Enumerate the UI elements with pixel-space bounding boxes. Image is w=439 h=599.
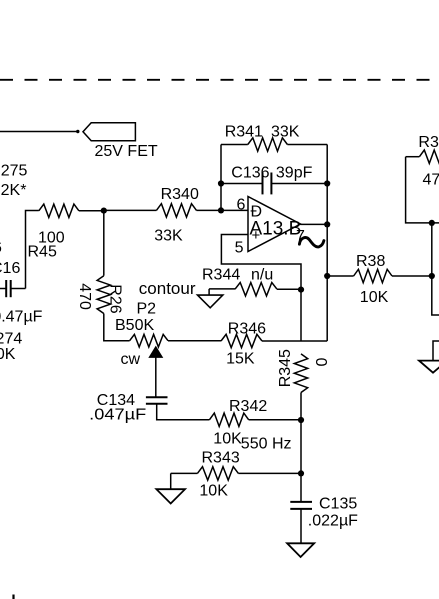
- wire: P2 to R346: [168, 340, 221, 342]
- node B: R344/feedback junction: [298, 287, 304, 293]
- svg-text:10K: 10K: [360, 289, 389, 306]
- svg-text:R340: R340: [161, 186, 199, 203]
- pin 7 output wire: [301, 223, 328, 225]
- svg-text:R347: R347: [418, 134, 439, 151]
- svg-text:6: 6: [237, 196, 246, 213]
- node E: R343/C135 junction: [298, 470, 304, 476]
- wire: C135 to ground: [300, 509, 302, 543]
- svg-text:C135: C135: [319, 495, 357, 512]
- wire: R342 to node D: [249, 419, 301, 421]
- wire: R38 left lead: [327, 275, 353, 277]
- node: right vertical top junction: [429, 220, 435, 226]
- svg-text:C16: C16: [0, 260, 20, 277]
- wire: input to 25V FET tag: [0, 131, 78, 133]
- capacitor C16: [0, 288, 6, 290]
- svg-text:5: 5: [235, 240, 244, 257]
- wire: wiper down to C134: [155, 356, 157, 397]
- capacitor C134: [146, 396, 168, 398]
- partial mark bottom left: [12, 595, 14, 599]
- svg-text:R275: R275: [0, 162, 28, 179]
- resistor R344: [235, 283, 277, 296]
- svg-text:470: 470: [76, 283, 93, 310]
- resistor R342: [209, 413, 248, 426]
- node: wire end dot: [76, 130, 79, 133]
- svg-text:0: 0: [314, 358, 331, 367]
- wire: C134 to R342: [157, 404, 210, 420]
- svg-text:C136: C136: [231, 165, 269, 182]
- wire: node D to node E: [300, 420, 302, 473]
- svg-text:n/u: n/u: [251, 267, 273, 284]
- node: R38 tap junction: [324, 273, 330, 279]
- svg-text:R342: R342: [229, 398, 267, 415]
- svg-text:470K: 470K: [423, 171, 439, 188]
- svg-text:.047µF: .047µF: [89, 406, 146, 423]
- resistor R347 (clipped): [406, 156, 420, 158]
- svg-text:R344: R344: [202, 267, 240, 284]
- svg-text:6: 6: [0, 240, 2, 257]
- ground for R343: [170, 473, 172, 489]
- wire: node A down to R26: [103, 211, 105, 276]
- resistor R343: [197, 467, 238, 480]
- node D: R342/R345 junction: [298, 417, 304, 423]
- node: output junction: [324, 221, 330, 227]
- ground for C135: [287, 543, 314, 557]
- svg-text:33K: 33K: [154, 227, 183, 244]
- svg-text:25V FET: 25V FET: [95, 143, 158, 160]
- svg-text:10K: 10K: [213, 430, 242, 447]
- svg-text:Đ: Đ: [251, 203, 263, 220]
- wire: R345 bottom to node D: [300, 393, 302, 421]
- wire: R346 to output vertical: [262, 340, 327, 342]
- wire: R343 to node E: [238, 472, 301, 474]
- svg-text:550 Hz: 550 Hz: [241, 435, 292, 452]
- capacitor C136: [221, 183, 263, 185]
- wire: R26 to P2: [104, 314, 130, 341]
- resistor R346: [221, 334, 262, 347]
- svg-text:0.47µF: 0.47µF: [0, 309, 43, 326]
- wire: arrow to R344: [209, 288, 235, 290]
- svg-text:10K: 10K: [199, 482, 228, 499]
- svg-text:R341: R341: [225, 123, 263, 140]
- wire: C16 up to R45: [26, 211, 39, 289]
- svg-text:R45: R45: [28, 244, 57, 261]
- wire: left feedback vertical: [220, 145, 222, 211]
- capacitor C135: [290, 501, 312, 503]
- dashed separator line: [0, 79, 439, 81]
- wire: node E to C135: [300, 473, 302, 502]
- wire: R344 to node B: [277, 288, 301, 290]
- svg-text:33K: 33K: [271, 123, 300, 140]
- sine squiggle annotation: [299, 238, 324, 247]
- wire: output vertical: [326, 145, 328, 342]
- wire: R45 to node A: [79, 210, 104, 212]
- P2 wiper arrow: [149, 347, 162, 358]
- node: R38 right junction: [429, 273, 435, 279]
- resistor R340: [156, 204, 196, 217]
- svg-text:P2: P2: [137, 301, 157, 318]
- svg-text:R346: R346: [228, 321, 266, 338]
- contour source arrow: [208, 289, 210, 295]
- power tag 25V FET pentagon: [83, 123, 135, 141]
- pin 6 wire: [221, 209, 248, 211]
- svg-text:cw: cw: [121, 351, 141, 368]
- svg-text:R38: R38: [356, 253, 385, 270]
- wire: R340 to pin6 node: [197, 209, 222, 211]
- resistor R341: [248, 138, 288, 151]
- ground right: [419, 361, 439, 373]
- svg-text:10K: 10K: [0, 346, 16, 363]
- svg-text:B50K: B50K: [115, 317, 154, 334]
- wire: right ground lead: [433, 341, 439, 361]
- node: C136 left junction: [218, 180, 224, 186]
- pin 5 wire and feedback to node C: [221, 235, 301, 342]
- potentiometer P2 body: [130, 334, 168, 347]
- resistor R26: [97, 276, 110, 314]
- svg-text:R26: R26: [107, 284, 124, 313]
- node A: R45/R340/R26 junction: [101, 208, 107, 214]
- svg-text:15K: 15K: [226, 351, 255, 368]
- resistor R45: [39, 204, 79, 217]
- wire: right vertical: [432, 223, 439, 315]
- op-amp A13.B triangle: [248, 197, 301, 252]
- node: C136 right junction: [324, 180, 330, 186]
- node: pin6 junction: [218, 207, 224, 213]
- wire: gnd to R343: [171, 472, 198, 474]
- svg-text:R345: R345: [277, 349, 294, 387]
- svg-text:39pF: 39pF: [276, 165, 313, 182]
- wire: R347 loop: [406, 157, 439, 223]
- wire: node A to R340: [104, 209, 157, 211]
- svg-text:.022µF: .022µF: [308, 513, 358, 530]
- svg-text:+: +: [252, 227, 261, 244]
- resistor R38: [354, 269, 392, 282]
- wire: R341 left lead: [221, 144, 248, 146]
- svg-text:contour: contour: [139, 279, 196, 298]
- wire: R341 right lead: [287, 144, 327, 146]
- resistor R345: [294, 354, 307, 393]
- svg-text:R343: R343: [202, 449, 240, 466]
- svg-text:5.2K*: 5.2K*: [0, 182, 26, 199]
- wire: R38 to right vertical: [392, 275, 432, 277]
